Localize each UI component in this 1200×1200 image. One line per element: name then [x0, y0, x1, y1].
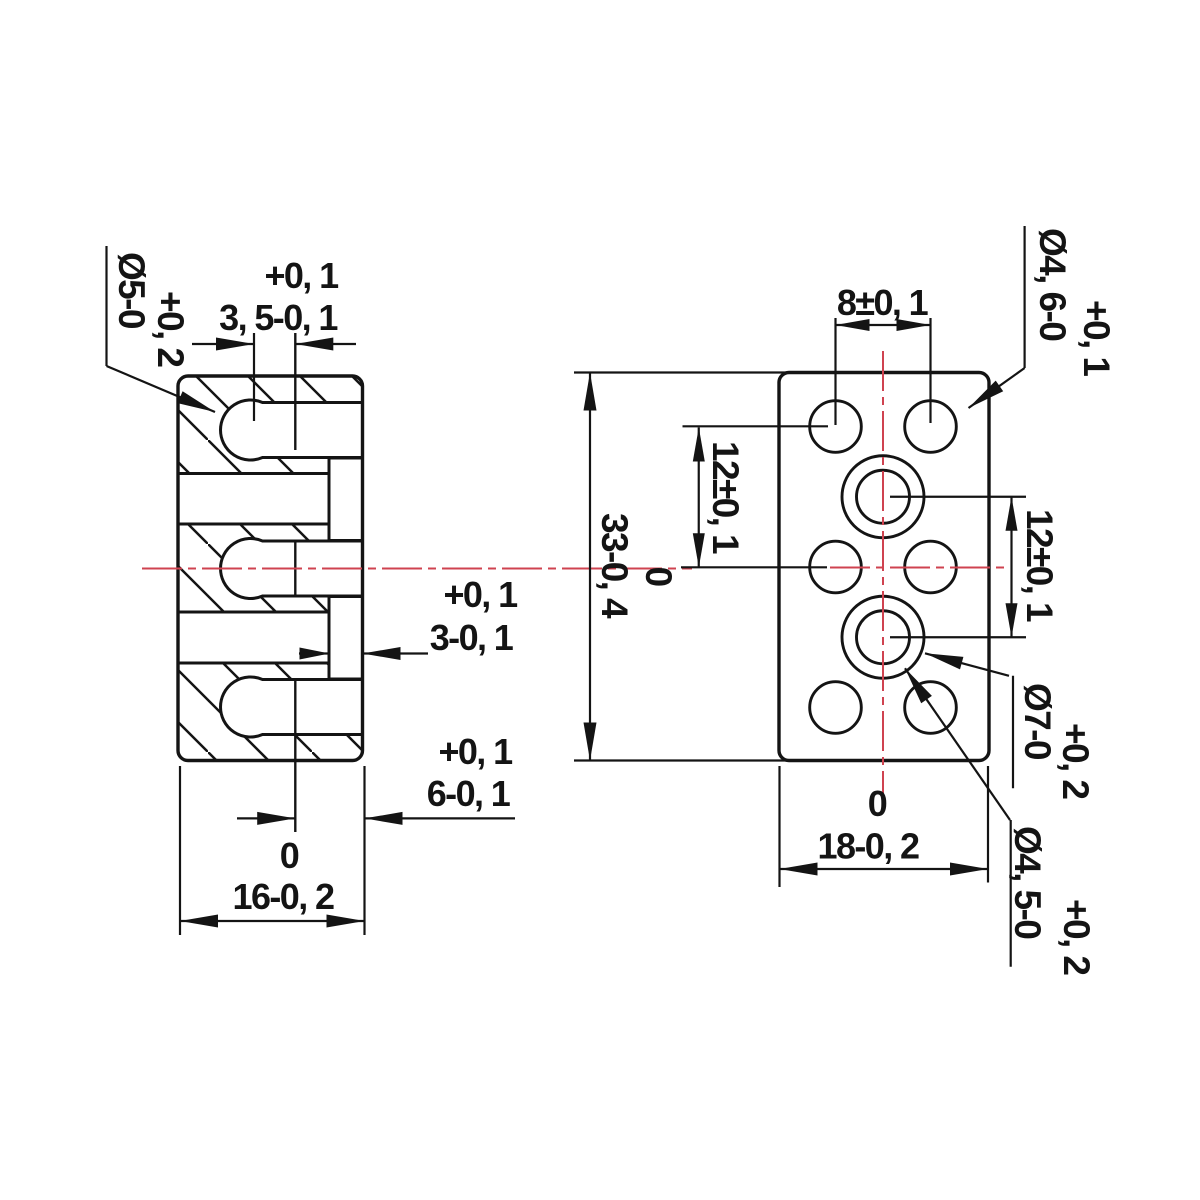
leader Ø4,5 — [905, 668, 1010, 820]
hole top-right Ø4,6 — [905, 401, 957, 453]
horizontal centerline right view (red) — [830, 567, 1008, 569]
counterbore 2 Ø7 outer — [842, 596, 924, 678]
svg-text:+0, 1: +0, 1 — [443, 574, 518, 615]
svg-text:6-0, 1: 6-0, 1 — [427, 773, 511, 814]
svg-text:3-0, 1: 3-0, 1 — [430, 617, 514, 658]
dim 18-0,2 — [778, 766, 780, 887]
svg-text:Ø4, 5-0: Ø4, 5-0 — [1007, 826, 1048, 939]
svg-text:0: 0 — [280, 835, 299, 876]
svg-text:0: 0 — [868, 783, 887, 824]
svg-text:+0, 2: +0, 2 — [1056, 899, 1097, 975]
leader Ø7 — [925, 653, 1009, 676]
svg-text:Ø5-0: Ø5-0 — [111, 252, 152, 329]
svg-text:+0, 2: +0, 2 — [150, 291, 191, 367]
svg-text:0: 0 — [638, 567, 679, 587]
dim 3,5-0,1 extension line left — [253, 333, 255, 421]
right side channel 1 — [329, 458, 363, 541]
left rectangular opening band A — [178, 474, 329, 525]
hole top-left Ø4,6 — [810, 401, 862, 453]
dim 3,5-0,1 dimension line and arrows — [192, 343, 254, 345]
counterbore 1 Ø7 outer — [842, 456, 924, 538]
hole bottom-right — [905, 682, 957, 734]
dim 12±0,1 left — [683, 425, 829, 427]
slot step lines (6mm depth) — [294, 333, 296, 450]
svg-text:18-0, 2: 18-0, 2 — [818, 826, 919, 867]
dim 8±0,1 — [834, 318, 836, 425]
leader Ø4,6 — [1023, 226, 1025, 368]
centerline (left view, red) — [142, 568, 692, 570]
slot 2 (round-end hole, section) — [221, 539, 363, 599]
slot 3 (round-end hole, section) — [221, 677, 363, 737]
svg-text:8±0, 1: 8±0, 1 — [837, 282, 929, 323]
svg-text:Ø4, 6-0: Ø4, 6-0 — [1032, 228, 1073, 341]
svg-text:12±0, 1: 12±0, 1 — [1019, 509, 1060, 622]
right side channel 2 — [329, 597, 363, 680]
hole mid-left — [810, 541, 862, 593]
left view: hatched body — [178, 376, 363, 761]
counterbore 2 Ø4,5 inner — [857, 611, 910, 664]
svg-text:+0, 2: +0, 2 — [1055, 723, 1096, 799]
dim 16-0,2 — [180, 920, 365, 922]
svg-text:Ø7-0: Ø7-0 — [1017, 683, 1058, 760]
svg-text:12±0, 1: 12±0, 1 — [705, 441, 746, 554]
left rectangular opening band B — [178, 612, 329, 663]
slot 1 (round-end hole, section) — [221, 400, 363, 460]
svg-text:3, 5-0, 1: 3, 5-0, 1 — [219, 297, 338, 338]
dim 6-0,1 — [179, 766, 181, 935]
left view outline — [178, 376, 363, 761]
dim 12±0,1 right — [890, 496, 1026, 498]
hole mid-right — [905, 541, 957, 593]
svg-text:+0, 1: +0, 1 — [264, 255, 339, 296]
svg-text:33-0, 4: 33-0, 4 — [594, 513, 635, 619]
svg-text:+0, 1: +0, 1 — [1076, 300, 1117, 376]
leader Ø5 — [105, 246, 107, 366]
svg-text:+0, 1: +0, 1 — [438, 731, 513, 772]
right view outline — [779, 373, 989, 761]
dim 33-0,4 — [574, 371, 791, 373]
svg-text:16-0, 2: 16-0, 2 — [233, 876, 334, 917]
counterbore 1 Ø4,5 inner — [857, 470, 910, 523]
hole bottom-left — [810, 682, 862, 734]
dim 3-0,1 — [299, 652, 330, 654]
vertical centerline (red) — [882, 351, 884, 795]
